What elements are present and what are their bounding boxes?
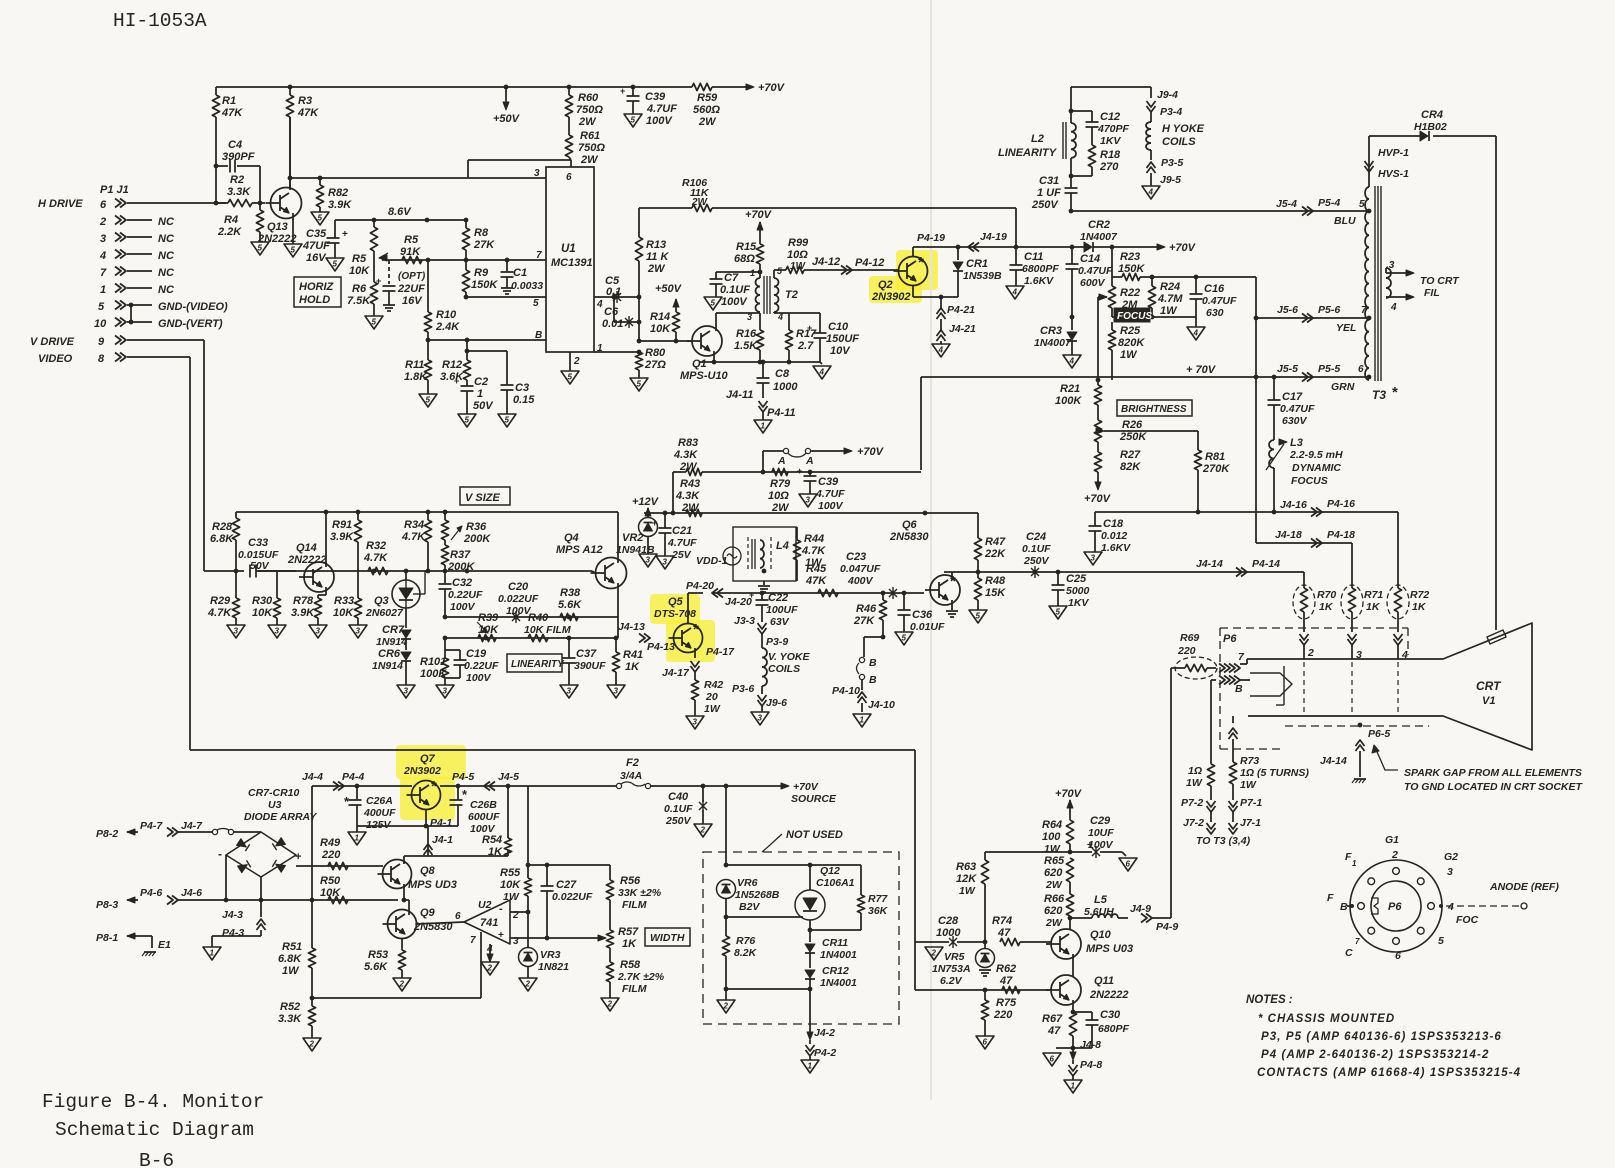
svg-text:7: 7: [1355, 937, 1360, 946]
svg-text:P4-19: P4-19: [917, 232, 945, 244]
wire R23 drop to J4-18: [1255, 277, 1257, 543]
svg-text:5: 5: [465, 416, 470, 425]
svg-text:CR7: CR7: [382, 624, 405, 636]
svg-text:3: 3: [758, 714, 763, 723]
resistor R10: [427, 260, 429, 312]
svg-text:P4-6: P4-6: [140, 887, 162, 899]
svg-text:TO CRT: TO CRT: [1420, 275, 1460, 287]
resistor R64: [1066, 820, 1073, 844]
svg-text:P5-5: P5-5: [1318, 363, 1340, 375]
svg-text:NC: NC: [158, 267, 175, 279]
svg-text:R72: R72: [1410, 589, 1429, 601]
svg-text:*: *: [950, 573, 956, 590]
svg-text:+: +: [376, 276, 381, 286]
P6 socket outer: [1350, 860, 1442, 952]
wire P4-9 riser: [1170, 668, 1172, 918]
wire T2 pin5 line: [783, 269, 786, 271]
svg-text:C39: C39: [818, 476, 839, 488]
svg-text:R71: R71: [1364, 589, 1383, 601]
svg-text:R5: R5: [404, 234, 419, 246]
svg-text:R40: R40: [528, 612, 549, 624]
svg-text:100V: 100V: [818, 500, 844, 512]
svg-text:4: 4: [819, 368, 825, 377]
svg-text:2N6027: 2N6027: [365, 607, 404, 619]
diode CR11: [809, 920, 811, 942]
svg-text:P7-1: P7-1: [1240, 797, 1262, 809]
svg-text:6: 6: [1050, 1055, 1055, 1064]
transformer T3 primary winding: [1365, 187, 1369, 199]
resistor R45: [818, 589, 838, 596]
svg-text:2W: 2W: [580, 154, 599, 166]
svg-text:2W: 2W: [578, 116, 597, 128]
ground R82: [311, 212, 329, 225]
svg-text:P4-5: P4-5: [452, 771, 474, 783]
potentiometer R26: [1094, 420, 1101, 442]
capacitor C24: [1031, 568, 1039, 576]
svg-text:1: 1: [860, 716, 865, 725]
svg-text:250V: 250V: [1023, 555, 1050, 567]
svg-text:J4-12: J4-12: [812, 256, 840, 268]
svg-text:FILM: FILM: [622, 899, 647, 911]
wire B link: [864, 636, 883, 638]
svg-text:J4-18: J4-18: [1275, 529, 1302, 541]
resistor R11: [427, 340, 429, 360]
resistor R55: [527, 786, 529, 865]
svg-text:R4: R4: [224, 214, 238, 226]
svg-text:50V: 50V: [473, 400, 494, 412]
svg-text:R8: R8: [474, 227, 489, 239]
svg-text:LINEARITY: LINEARITY: [998, 147, 1058, 159]
svg-text:100V: 100V: [450, 601, 476, 613]
resistor R76: [725, 917, 727, 936]
resistor R21: [1094, 385, 1101, 405]
capacitor C18: [1094, 512, 1096, 526]
svg-text:2W: 2W: [691, 197, 709, 208]
diode CR2: [1016, 246, 1084, 248]
svg-text:82K: 82K: [1120, 461, 1141, 473]
potentiometer R5 10K: [373, 220, 375, 227]
svg-text:R49: R49: [320, 837, 341, 849]
wire vert rail 866: [295, 855, 297, 866]
svg-text:C4: C4: [228, 139, 242, 151]
box WIDTH: [645, 928, 690, 946]
svg-text:6800PF: 6800PF: [1022, 263, 1059, 275]
svg-text:B: B: [1340, 901, 1348, 913]
svg-text:1W: 1W: [503, 891, 520, 903]
svg-text:150K: 150K: [1118, 263, 1145, 275]
svg-text:3: 3: [614, 687, 619, 696]
svg-text:R55: R55: [500, 867, 521, 879]
svg-text:C33: C33: [248, 537, 268, 549]
SCR Q12: [795, 890, 825, 920]
wire 8.6V line: [335, 219, 466, 221]
svg-text:5: 5: [258, 244, 263, 253]
connector P4-10: [861, 680, 863, 690]
wire base rail 571: [204, 570, 244, 572]
svg-text:R61: R61: [580, 130, 600, 142]
wire Q8 R54 link: [428, 855, 508, 857]
transistor Q1: [692, 326, 722, 356]
wire B drop: [1210, 680, 1212, 764]
svg-text:LINEARITY: LINEARITY: [511, 659, 565, 670]
svg-text:*: *: [693, 621, 699, 638]
svg-text:3.9K: 3.9K: [291, 607, 315, 619]
svg-text:1.6KV: 1.6KV: [1101, 542, 1131, 554]
svg-text:J4-16: J4-16: [1280, 499, 1307, 511]
wire box top row: [726, 864, 861, 866]
resistor R46: [882, 593, 884, 600]
resistor R65: [1066, 858, 1073, 882]
svg-text:R41: R41: [623, 649, 643, 661]
svg-text:Q7: Q7: [420, 753, 436, 765]
wire video run: [127, 356, 190, 358]
resistor R82: [319, 178, 321, 185]
svg-text:620: 620: [1044, 867, 1063, 879]
resistor R32: [368, 567, 388, 574]
resistor R23: [1111, 247, 1113, 277]
svg-text:5: 5: [98, 301, 105, 313]
svg-text:3/4A: 3/4A: [620, 770, 642, 782]
svg-text:R57: R57: [618, 926, 639, 938]
resistor R71: [1341, 585, 1363, 619]
wire Q7 emitter: [425, 810, 427, 826]
svg-text:1.5K: 1.5K: [734, 340, 758, 352]
svg-text:CR7-CR10: CR7-CR10: [248, 787, 300, 799]
svg-text:10K: 10K: [333, 607, 354, 619]
svg-text:47K: 47K: [297, 107, 319, 119]
connector J4-3: [260, 900, 262, 917]
svg-text:1K: 1K: [622, 938, 637, 950]
dashed box NOT USED: [703, 852, 899, 1024]
svg-text:*: *: [918, 254, 924, 271]
svg-text:+: +: [749, 590, 754, 600]
ground C11: [1006, 286, 1024, 299]
svg-text:R9: R9: [474, 267, 489, 279]
svg-text:P4-4: P4-4: [342, 771, 364, 783]
inductor L4: [747, 537, 749, 571]
svg-text:C39: C39: [645, 91, 666, 103]
resistor R13: [638, 208, 640, 237]
resistor R51: [311, 900, 313, 948]
svg-text:100V: 100V: [1088, 839, 1114, 851]
resistor R15: [756, 244, 763, 264]
connector J4-8: [1072, 1048, 1074, 1054]
ground Q13: [284, 244, 302, 257]
wire bridge minus drop: [225, 855, 227, 900]
svg-text:R16: R16: [736, 328, 757, 340]
dashed P6-5 line: [1285, 725, 1429, 727]
svg-text:4: 4: [1069, 357, 1075, 366]
ground P4-11: [754, 420, 772, 433]
T3 pin7 YEL line: [1256, 317, 1369, 319]
svg-text:E1: E1: [158, 939, 171, 951]
svg-text:2: 2: [309, 1040, 315, 1049]
svg-text:0.0033: 0.0033: [511, 280, 543, 292]
svg-text:1N5268B: 1N5268B: [735, 889, 780, 901]
svg-text:R91: R91: [332, 519, 352, 531]
svg-text:V SIZE: V SIZE: [465, 492, 501, 504]
svg-text:2: 2: [607, 1000, 613, 1009]
svg-text:Schematic Diagram: Schematic Diagram: [55, 1119, 254, 1141]
svg-text:3: 3: [100, 233, 106, 245]
chassis gnd P6-5: [1354, 778, 1366, 780]
wire Q8 emitter: [403, 884, 405, 900]
svg-text:0.47UF: 0.47UF: [1280, 403, 1315, 415]
svg-text:5.6K: 5.6K: [364, 961, 388, 973]
svg-text:1.6KV: 1.6KV: [1024, 275, 1054, 287]
wire C3 branch: [467, 350, 507, 352]
svg-text:P8-3: P8-3: [96, 899, 118, 911]
ground V yoke: [751, 712, 769, 725]
svg-text:16V: 16V: [306, 252, 327, 264]
wire R61 to pin6: [468, 159, 571, 161]
+70V arrow video: [1067, 800, 1073, 808]
wire Q5 collector: [687, 593, 689, 623]
svg-text:J5-5: J5-5: [1277, 363, 1298, 375]
svg-text:U2: U2: [478, 899, 492, 911]
svg-text:R54: R54: [482, 834, 502, 846]
svg-text:0.22UF: 0.22UF: [448, 589, 483, 601]
svg-text:+70V: +70V: [745, 209, 773, 221]
transistor Q2: [899, 257, 928, 286]
svg-text:1: 1: [477, 388, 483, 400]
svg-text:+: +: [620, 86, 625, 96]
svg-text:CR3: CR3: [1040, 325, 1062, 337]
wire Q7 out: [440, 785, 528, 787]
wire rail2 898: [226, 899, 398, 901]
wire U1 pin5 line: [466, 296, 546, 298]
svg-text:P6: P6: [1223, 633, 1237, 645]
svg-text:5.6K: 5.6K: [558, 599, 582, 611]
ground R76: [725, 989, 727, 1000]
svg-text:R38: R38: [560, 587, 581, 599]
svg-text:5: 5: [1438, 935, 1444, 947]
svg-text:100V: 100V: [721, 296, 748, 308]
svg-text:0.1UF: 0.1UF: [1022, 543, 1051, 555]
svg-text:R18: R18: [1100, 149, 1121, 161]
svg-text:C35: C35: [306, 228, 327, 240]
svg-text:4.7UF: 4.7UF: [667, 537, 697, 549]
svg-text:R1: R1: [222, 95, 236, 107]
svg-text:Q6: Q6: [902, 519, 918, 531]
svg-text:L2: L2: [1031, 133, 1044, 145]
svg-text:6: 6: [983, 1038, 988, 1047]
svg-text:1K: 1K: [488, 846, 503, 858]
svg-text:0.1UF: 0.1UF: [720, 284, 750, 296]
wire pin6 H drive: [127, 202, 226, 204]
capacitor C40: [702, 786, 704, 802]
svg-text:+: +: [342, 229, 348, 240]
svg-text:6: 6: [566, 172, 572, 183]
svg-text:R37: R37: [450, 549, 471, 561]
svg-text:10K FILM: 10K FILM: [524, 624, 571, 636]
svg-text:1K: 1K: [625, 661, 640, 673]
svg-text:MPS A12: MPS A12: [556, 544, 603, 556]
svg-text:4: 4: [99, 250, 106, 262]
capacitor C3: [501, 384, 514, 386]
svg-text:NOT USED: NOT USED: [786, 829, 843, 841]
svg-text:CONTACTS (AMP 61668-4) 1SPS353: CONTACTS (AMP 61668-4) 1SPS353215-4: [1257, 1067, 1521, 1079]
svg-text:2: 2: [700, 826, 706, 835]
svg-text:1N914: 1N914: [376, 636, 407, 648]
svg-text:22K: 22K: [984, 548, 1006, 560]
wire P4-20 line: [688, 592, 703, 594]
svg-text:1K: 1K: [1366, 601, 1381, 613]
svg-text:36K: 36K: [868, 905, 889, 917]
highlight over Q7: [396, 745, 466, 779]
resistor R91: [357, 512, 359, 520]
svg-text:J4-4: J4-4: [302, 771, 323, 783]
svg-text:2N5830: 2N5830: [889, 531, 929, 543]
transistor Q13: [271, 188, 302, 219]
svg-text:2: 2: [525, 980, 531, 989]
svg-text:15K: 15K: [985, 587, 1006, 599]
wire Q14 emitter: [325, 587, 327, 595]
diode CR6: [401, 652, 411, 660]
svg-text:J4-8: J4-8: [1080, 1039, 1101, 1051]
svg-text:4: 4: [1193, 329, 1199, 338]
svg-text:3.9K: 3.9K: [328, 199, 352, 211]
svg-text:J5-6: J5-6: [1277, 304, 1298, 316]
resistor R41: [615, 638, 617, 652]
resistor R77: [857, 895, 864, 913]
svg-text:Q2: Q2: [878, 279, 893, 291]
svg-text:2W: 2W: [681, 502, 700, 514]
svg-text:B: B: [869, 657, 877, 669]
ground C16: [1195, 317, 1197, 327]
svg-text:4: 4: [596, 299, 603, 310]
resistor R60: [568, 87, 570, 95]
resistor R17: [788, 313, 790, 330]
svg-text:5: 5: [902, 634, 907, 643]
svg-text:47: 47: [997, 927, 1011, 939]
wire V drive run: [127, 339, 204, 341]
svg-text:FILM: FILM: [622, 983, 647, 995]
resistor R12: [466, 340, 468, 360]
highlight over Q2: [896, 250, 938, 290]
svg-text:5: 5: [1359, 199, 1365, 210]
capacitor C14: [1071, 247, 1073, 264]
wire J4-16 line: [1095, 511, 1398, 513]
svg-text:8.2K: 8.2K: [734, 947, 758, 959]
svg-text:2: 2: [1391, 849, 1398, 861]
svg-text:L5: L5: [1094, 894, 1108, 906]
svg-text:2N2222: 2N2222: [1089, 989, 1129, 1001]
svg-text:100K: 100K: [1055, 395, 1082, 407]
svg-text:400V: 400V: [847, 575, 874, 587]
svg-text:1KV: 1KV: [1100, 135, 1121, 147]
svg-text:3.3K: 3.3K: [227, 186, 251, 198]
+50V feed arrow: [505, 87, 507, 102]
svg-text:NC: NC: [158, 216, 175, 228]
svg-text:J4-2: J4-2: [814, 1027, 835, 1039]
capacitor C27: [546, 865, 548, 886]
svg-text:220: 220: [993, 1009, 1013, 1021]
svg-text:1Ω: 1Ω: [1188, 765, 1202, 777]
svg-text:VR5: VR5: [944, 951, 965, 963]
CRT anode button: [1487, 630, 1506, 644]
svg-text:10Ω: 10Ω: [768, 490, 789, 502]
svg-text:R47: R47: [985, 536, 1006, 548]
svg-text:+: +: [454, 376, 459, 386]
svg-text:R34: R34: [404, 519, 424, 531]
wire J4-4 line: [311, 786, 313, 900]
resistor R18: [1088, 145, 1095, 167]
resistor R8: [465, 220, 467, 228]
svg-text:+: +: [498, 930, 504, 941]
wire R106 line: [639, 207, 692, 209]
svg-text:10UF: 10UF: [1088, 827, 1114, 839]
capacitor C30: [1073, 1011, 1092, 1013]
resistor R43: [686, 509, 702, 516]
svg-text:47K: 47K: [805, 575, 827, 587]
svg-text:1: 1: [100, 284, 106, 296]
wire Q12 gate: [726, 916, 803, 918]
svg-text:4.3K: 4.3K: [673, 449, 698, 461]
svg-text:250V: 250V: [1031, 199, 1059, 211]
svg-text:C1: C1: [513, 267, 527, 279]
wire pin7 feed: [1207, 667, 1216, 669]
capacitor C39b: [809, 472, 811, 476]
svg-text:2W: 2W: [771, 502, 790, 514]
svg-text:0.47UF: 0.47UF: [1078, 265, 1113, 277]
svg-text:630V: 630V: [1282, 415, 1308, 427]
resistor R2: [216, 202, 228, 204]
chevron HVP-1: [1365, 161, 1374, 167]
capacitor C8: [762, 362, 764, 378]
svg-text:P4-20: P4-20: [686, 580, 714, 592]
wire Q1 emitter: [713, 351, 715, 362]
transistor Q3 PUT: [392, 580, 420, 608]
wire pinB feed: [1211, 679, 1216, 681]
wire Q3 anode: [405, 571, 407, 580]
resistor R73: [1229, 733, 1238, 739]
svg-text:P6: P6: [1388, 901, 1402, 913]
svg-text:C26B: C26B: [470, 799, 497, 811]
svg-text:NC: NC: [158, 250, 175, 262]
svg-text:820K: 820K: [1118, 337, 1145, 349]
svg-text:C12: C12: [1100, 111, 1120, 123]
resistor R6: [370, 282, 377, 304]
svg-text:5: 5: [372, 318, 377, 327]
svg-text:4: 4: [1447, 901, 1454, 913]
svg-text:YEL: YEL: [1336, 322, 1356, 334]
svg-text:27K: 27K: [853, 615, 875, 627]
resistor R28: [235, 512, 237, 518]
transistor Q10: [1051, 929, 1081, 959]
svg-text:6.8K: 6.8K: [210, 533, 234, 545]
svg-text:0.22UF: 0.22UF: [464, 660, 499, 672]
svg-text:3.3K: 3.3K: [278, 1013, 302, 1025]
svg-text:Q10: Q10: [1090, 929, 1112, 941]
transistor Q11: [1051, 975, 1081, 1005]
svg-text:+70V: +70V: [1055, 788, 1083, 800]
svg-text:4.3K: 4.3K: [675, 490, 700, 502]
svg-text:J4-1: J4-1: [432, 834, 453, 846]
capacitor C4: [216, 165, 228, 167]
svg-text:100V: 100V: [646, 115, 673, 127]
svg-text:J4-11: J4-11: [726, 389, 753, 401]
svg-text:R82: R82: [328, 187, 348, 199]
svg-text:4.7UF: 4.7UF: [815, 488, 845, 500]
svg-text:V. YOKE: V. YOKE: [768, 651, 810, 663]
resistor R44: [796, 527, 798, 540]
wire P4-5 to F2: [528, 785, 616, 787]
svg-text:5: 5: [318, 214, 323, 223]
svg-text:2W: 2W: [679, 461, 698, 473]
chevron P3-9: [758, 623, 767, 629]
capacitor C16: [1195, 277, 1197, 294]
